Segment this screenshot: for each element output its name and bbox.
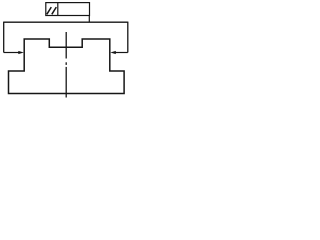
left leader vertical — [3, 22, 5, 53]
right arrow line — [115, 52, 128, 54]
right leader vertical — [127, 22, 129, 53]
centerline long dash lower — [65, 67, 67, 98]
left arrow line — [4, 52, 20, 54]
horizontal leader line — [4, 21, 128, 23]
parallelism symbol // — [47, 7, 57, 14]
centerline short dash — [65, 62, 67, 65]
leader line from frame to horizontal tolerance line — [88, 16, 90, 23]
feature control frame — [46, 3, 90, 16]
centerline long dash upper — [65, 32, 67, 59]
part outline — [9, 39, 125, 94]
right arrowhead — [110, 51, 116, 54]
left arrowhead — [18, 51, 24, 54]
